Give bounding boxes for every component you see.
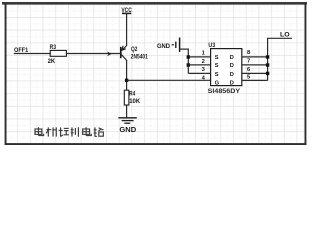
svg-text:G: G <box>215 80 220 86</box>
svg-text:D: D <box>230 72 234 78</box>
IC U3 body <box>211 49 242 86</box>
svg-text:R3: R3 <box>50 44 57 51</box>
svg-text:VCC: VCC <box>121 8 132 14</box>
svg-text:GND: GND <box>157 43 171 50</box>
resistor R4 <box>124 90 129 105</box>
svg-text:GND: GND <box>119 127 136 134</box>
svg-text:2: 2 <box>202 59 205 65</box>
junction pin 7 <box>266 63 269 66</box>
wire collector node to U3 pin4 <box>127 79 211 81</box>
pin 5 stub <box>242 79 268 81</box>
ground GND <box>118 118 137 134</box>
svg-text:U3: U3 <box>208 42 215 49</box>
pin 1 stub <box>188 56 210 58</box>
pin 8 stub <box>242 56 268 58</box>
junction U3 pin1 <box>187 55 190 58</box>
pin 7 stub <box>242 64 268 66</box>
svg-text:10K: 10K <box>129 98 141 105</box>
power port GND near U3 <box>157 38 180 53</box>
svg-text:SI4856DY: SI4856DY <box>208 88 241 95</box>
svg-text:Q2: Q2 <box>131 46 138 53</box>
svg-text:S: S <box>215 63 219 69</box>
svg-text:R4: R4 <box>129 90 135 97</box>
junction collector node <box>125 79 128 82</box>
svg-text:LO: LO <box>280 31 290 38</box>
junction U3 pin2 <box>187 63 190 66</box>
title text: 电机控制电路 <box>35 127 104 137</box>
svg-text:S: S <box>215 72 219 78</box>
svg-text:7: 7 <box>247 58 250 64</box>
junction pin 8 <box>266 55 269 58</box>
power port VCC <box>121 8 132 14</box>
svg-text:OFF1: OFF1 <box>14 47 29 54</box>
wire Q2 collector down to node <box>126 60 128 90</box>
transistor Q2 <box>121 45 127 60</box>
pin 6 stub <box>242 72 268 74</box>
sheet border <box>2 2 307 145</box>
wire VCC to Q2 emitter <box>126 13 128 45</box>
wire R3 to Q2 base <box>66 53 120 55</box>
svg-text:D: D <box>230 55 234 61</box>
svg-text:2N5401: 2N5401 <box>131 54 148 61</box>
wire R4 to ground <box>126 105 128 117</box>
svg-text:S: S <box>215 55 219 61</box>
pin 3 stub <box>188 72 210 74</box>
wire GND port to pin bus <box>180 49 189 73</box>
arrow on base wire <box>107 51 112 56</box>
svg-text:D: D <box>230 63 234 69</box>
wire OFF1 to R3 <box>14 53 50 55</box>
bus wire to LO <box>268 38 292 80</box>
svg-text:D: D <box>230 80 234 86</box>
svg-text:2K: 2K <box>48 58 56 65</box>
junction pin 6 <box>266 72 269 75</box>
resistor R3 <box>50 50 66 56</box>
pin 2 stub <box>188 64 210 66</box>
